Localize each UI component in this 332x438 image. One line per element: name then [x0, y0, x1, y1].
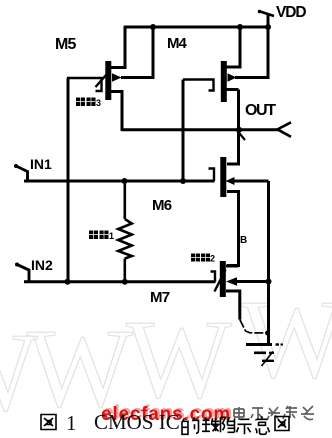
svg-text:CMOS IC: CMOS IC	[94, 410, 180, 434]
wire: OUT column vertical M4 drain to M6 drain	[227, 90, 239, 165]
grey watermark text dianzifashaoyou	[234, 406, 314, 420]
wire: M5 drain-top feed vertical	[110, 26, 125, 68]
OUT arrowhead	[278, 122, 292, 137]
wire: right column vertical M6 source to ground	[267, 181, 270, 345]
node: junction dot IN2-left vertical	[65, 279, 71, 285]
node: junction dot top rail to M5 source	[150, 24, 156, 30]
char xian	[221, 417, 235, 432]
svg-text:W: W	[241, 278, 332, 402]
power VDD symbol tick	[259, 11, 275, 16]
wire: M5 drain bottom stub	[109, 92, 123, 132]
resistor defect1 vertical lead bottom	[124, 259, 127, 282]
wire: M6 bottom stub and B link vertical	[227, 192, 239, 266]
char que	[202, 417, 220, 431]
node: junction dot VDD rail	[265, 24, 271, 30]
node: junction dot OUT	[236, 127, 242, 133]
transistor M5 channel bar	[105, 61, 111, 100]
wire: IN1 rail	[24, 180, 215, 183]
node: junction dot IN1-M4gate	[180, 178, 186, 184]
transistor M4 channel bar	[221, 61, 227, 102]
ground symbol	[246, 345, 283, 367]
resistor defect1 zigzag	[118, 219, 132, 259]
watermark W letters	[0, 278, 332, 435]
transistor M6 gate hook	[209, 169, 215, 182]
wire: M4 drain bottom stub	[227, 88, 239, 91]
resistor defect1 vertical lead top	[124, 181, 127, 219]
wire: OUT rail	[121, 128, 279, 131]
defect slash on M7	[215, 270, 226, 292]
wire: left long vertical M5 gate to IN2 rail	[67, 78, 70, 282]
svg-text:3: 3	[96, 98, 101, 108]
transistor M5 source arrow	[112, 73, 122, 81]
wire: small slash under OUT junction	[238, 131, 246, 140]
svg-text:2: 2	[210, 254, 215, 264]
label defect3	[76, 98, 101, 109]
wire: top rail VDD net	[125, 26, 268, 29]
transistor M6 channel bar	[220, 157, 226, 197]
caption black text	[41, 410, 289, 435]
transistor M4 gate lead and hook	[183, 80, 214, 91]
wire: M7 drain line to right column	[236, 280, 269, 283]
IN2 input tick	[16, 264, 30, 282]
svg-text:1: 1	[109, 231, 114, 241]
wire: M5 source vertical from rail	[121, 27, 153, 78]
svg-text:VDD: VDD	[276, 4, 306, 21]
label defect1	[89, 231, 114, 242]
char shi	[237, 419, 252, 434]
svg-text:IN1: IN1	[30, 156, 52, 172]
label defect2	[191, 254, 215, 264]
transistor M4 source arrow	[228, 73, 237, 81]
svg-text:M7: M7	[150, 289, 170, 306]
wire: M6 source line to right column	[234, 180, 269, 183]
char yi	[256, 416, 270, 434]
wire: VDD vertical to M4 source arrow	[235, 15, 268, 78]
char tu2	[275, 417, 289, 431]
node: junction dot IN1-resistor	[122, 178, 128, 184]
svg-text:1: 1	[66, 411, 77, 435]
svg-text:M5: M5	[55, 36, 77, 53]
char tu1	[41, 415, 56, 430]
wire: M4 gate feed vertical down to IN1 rail	[182, 80, 185, 182]
transistor M6 source arrow	[226, 177, 235, 185]
wire: IN2 rail to M7 gate	[24, 280, 216, 283]
wire: hand-drawn link to ground node	[240, 320, 268, 334]
svg-text:IN2: IN2	[31, 257, 53, 273]
svg-text:M4: M4	[167, 35, 187, 52]
wire: M7 source bottom stub down	[226, 291, 240, 320]
transistor M5 gate lead and hook	[67, 78, 102, 91]
node: junction dot top rail to M4 top	[237, 24, 243, 30]
transistor M7 gate hook	[211, 272, 216, 282]
transistor M7 channel bar	[220, 261, 226, 297]
svg-text:OUT: OUT	[245, 102, 276, 119]
svg-text:M6: M6	[152, 197, 172, 214]
node: junction dot IN2-resistor	[122, 279, 128, 285]
char de	[182, 416, 270, 434]
node: junction dot right column bottom	[266, 279, 272, 285]
svg-text:B: B	[240, 235, 247, 246]
defect slash on M5	[96, 71, 111, 88]
transistor M7 drain arrow	[226, 277, 237, 285]
node: junction dot ground link	[265, 331, 270, 336]
wire: M7 top stub from B link	[226, 265, 239, 268]
wire: M4 top feed vertical	[226, 27, 240, 67]
IN1 input tick	[15, 166, 29, 182]
